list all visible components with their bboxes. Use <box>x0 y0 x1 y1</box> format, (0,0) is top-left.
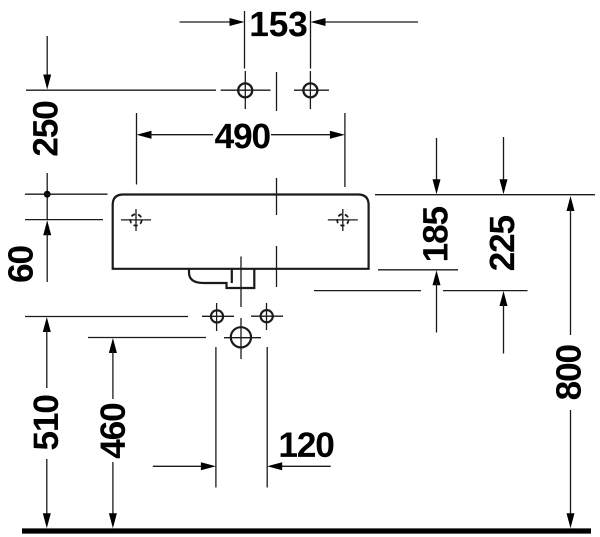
dim 60 arrow (points up) and shaft <box>43 220 51 235</box>
dim 225 bottom arrow (points up) and shaft <box>500 291 508 306</box>
dim 460 bottom arrow (points down) <box>109 513 117 528</box>
basin-top reference line left <box>25 193 108 195</box>
dim 490 extension line left <box>136 113 138 185</box>
label 120 <box>281 432 334 457</box>
label 800 (rotated) <box>556 345 581 399</box>
drain hole big: horizontal crosshair <box>224 337 261 339</box>
label 153 <box>251 11 306 36</box>
dim 225 bottom reference line segments <box>314 290 421 292</box>
dim 185 bottom reference line (basin bottom level) <box>378 269 458 271</box>
drain hole big: circle <box>231 327 251 347</box>
vertical centerline upper (between wall holes, through basin) <box>276 72 278 111</box>
dim 120 arrow right (points left) <box>267 462 282 470</box>
faucet hole right: crosshair <box>328 219 358 221</box>
dim 120 dimension line right segment <box>280 465 331 467</box>
dim 185 top shaft and arrow (points down) <box>436 138 438 182</box>
reference line at big-hole level (460 top) <box>88 337 206 339</box>
outlet hole right small: crosshair <box>251 315 283 317</box>
outlet hole left small: crosshair <box>202 315 234 317</box>
floor line <box>22 528 591 533</box>
dim 490 dimension line left segment <box>149 134 213 136</box>
dim 153 arrow left (points right) <box>230 18 245 26</box>
dim 225 top shaft and arrow (points down) <box>503 137 505 182</box>
basin outline (front view) <box>113 195 369 269</box>
vertical centerline lower (through drain and outlet holes) <box>240 257 242 308</box>
wall hole right: circle <box>303 83 317 97</box>
wall hole left: circle <box>238 83 252 97</box>
label 460 (rotated) <box>100 404 125 459</box>
label 185 (rotated) <box>423 207 448 260</box>
dim 800 lower shaft <box>570 410 572 516</box>
drain inner edge <box>231 268 233 283</box>
dim 120 extension line left <box>215 347 217 488</box>
faucet hole left: dashed circle <box>130 214 141 225</box>
faucet hole right: dashed circle <box>337 214 348 225</box>
dim 490 dimension line right segment <box>271 134 333 136</box>
wall hole left: crosshair <box>221 89 271 91</box>
dim 510 top arrow (points up) <box>43 317 51 332</box>
dim 250 lower segment with dot terminator <box>46 173 48 220</box>
reference line at wall-hole level <box>26 89 216 91</box>
dim 490 arrow right (points right) <box>330 131 345 139</box>
dim 800 top arrow (points up) and shaft <box>567 196 575 211</box>
outlet hole right small: circle <box>261 310 273 322</box>
label 250 (rotated) <box>33 102 58 156</box>
dim 185 bottom arrow (points up) and shaft <box>433 270 441 285</box>
faucet-hole reference line left <box>25 219 103 221</box>
dim 120 dimension line left segment <box>153 465 204 467</box>
dim 800 bottom arrow (points down) <box>567 513 575 528</box>
dim 120 arrow left (points right) <box>201 462 216 470</box>
dim 460 top arrow (points up) <box>109 338 117 353</box>
dim 153 extension line right <box>310 11 312 69</box>
dim 153 dimension line left segment <box>180 21 234 23</box>
dim 120 extension line right <box>266 347 268 488</box>
dim 510 bottom arrow (points down) <box>43 513 51 528</box>
basin-top reference line right <box>375 194 595 196</box>
dim 153 arrow right (points left) <box>311 18 326 26</box>
dim 490 extension line right <box>344 113 346 187</box>
wall hole right: crosshair <box>294 89 329 91</box>
faucet hole left: crosshair <box>121 219 151 221</box>
label 510 (rotated) <box>33 396 58 450</box>
dim 250 dot terminator <box>44 191 51 198</box>
dim 510 lower shaft <box>46 459 48 516</box>
reference line at small-holes level (510 top) <box>25 316 188 318</box>
drain / trap outline under basin <box>189 268 254 288</box>
dim 153 dimension line right segment <box>322 21 418 23</box>
label 225 (rotated) <box>490 216 515 270</box>
label 490 <box>215 124 270 149</box>
dim 153 extension line left <box>244 11 246 69</box>
outlet hole left small: circle <box>211 310 223 322</box>
dim 490 arrow left (points left) <box>137 131 152 139</box>
dim 460 lower shaft <box>112 462 114 516</box>
label 60 (rotated) <box>8 246 33 281</box>
dim 250 arrow shaft top (points down) <box>46 36 48 78</box>
